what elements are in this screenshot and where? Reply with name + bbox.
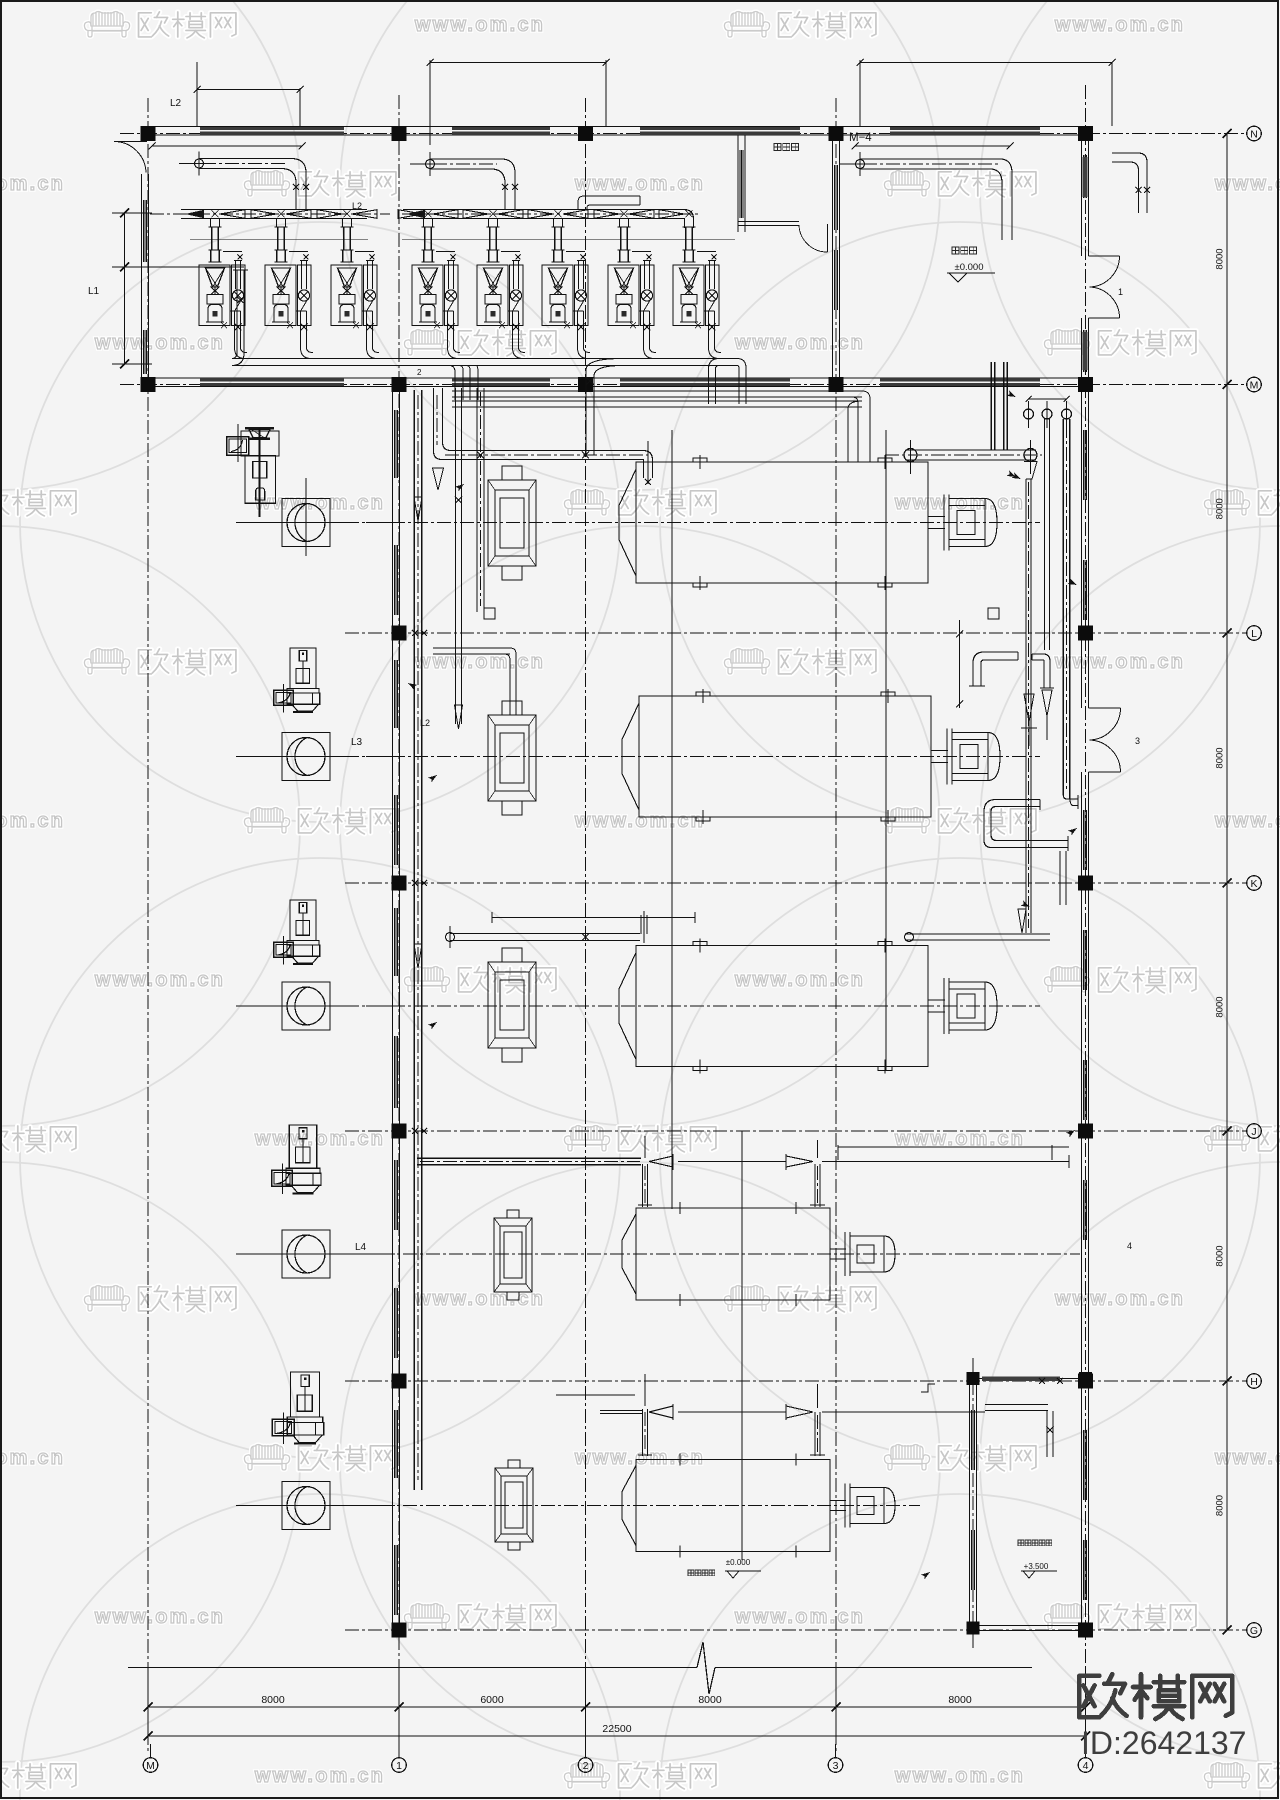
svg-text:H: H <box>1250 1376 1258 1388</box>
svg-text:3: 3 <box>833 1760 839 1772</box>
svg-text:N: N <box>1250 128 1258 140</box>
svg-text:1: 1 <box>396 1760 402 1772</box>
svg-text:2: 2 <box>583 1760 589 1772</box>
svg-text:8000: 8000 <box>1215 498 1226 519</box>
svg-text:8000: 8000 <box>948 1694 972 1706</box>
svg-text:6000: 6000 <box>480 1694 504 1706</box>
svg-text:8000: 8000 <box>1215 1495 1226 1516</box>
svg-text:3: 3 <box>1135 736 1140 746</box>
svg-text:L4: L4 <box>355 1242 367 1253</box>
svg-text:8000: 8000 <box>1215 747 1226 768</box>
svg-text:8000: 8000 <box>698 1694 722 1706</box>
svg-text:L: L <box>1251 628 1257 640</box>
svg-text:L2: L2 <box>170 98 182 109</box>
svg-text:8000: 8000 <box>1215 996 1226 1017</box>
svg-text:G: G <box>1250 1625 1258 1637</box>
svg-text:±0.000: ±0.000 <box>955 262 984 273</box>
svg-text:22500: 22500 <box>602 1723 631 1735</box>
svg-text:L1: L1 <box>88 286 100 297</box>
svg-text:8000: 8000 <box>261 1694 285 1706</box>
svg-text:+3.500: +3.500 <box>1024 1562 1049 1571</box>
svg-text:8000: 8000 <box>1215 1245 1226 1266</box>
svg-text:1: 1 <box>1118 287 1123 297</box>
svg-text:M: M <box>146 1760 155 1772</box>
svg-text:4: 4 <box>1083 1760 1089 1772</box>
svg-text:L3: L3 <box>351 737 363 748</box>
svg-text:M: M <box>1250 379 1259 391</box>
svg-text:M−4: M−4 <box>849 132 872 144</box>
svg-text:4: 4 <box>1127 1241 1132 1251</box>
svg-text:±0.000: ±0.000 <box>726 1558 751 1567</box>
svg-text:8000: 8000 <box>1215 248 1226 269</box>
svg-text:ID:2642137: ID:2642137 <box>1081 1725 1246 1761</box>
svg-text:J: J <box>1251 1126 1256 1138</box>
svg-text:K: K <box>1250 878 1257 890</box>
svg-text:2: 2 <box>417 368 422 377</box>
